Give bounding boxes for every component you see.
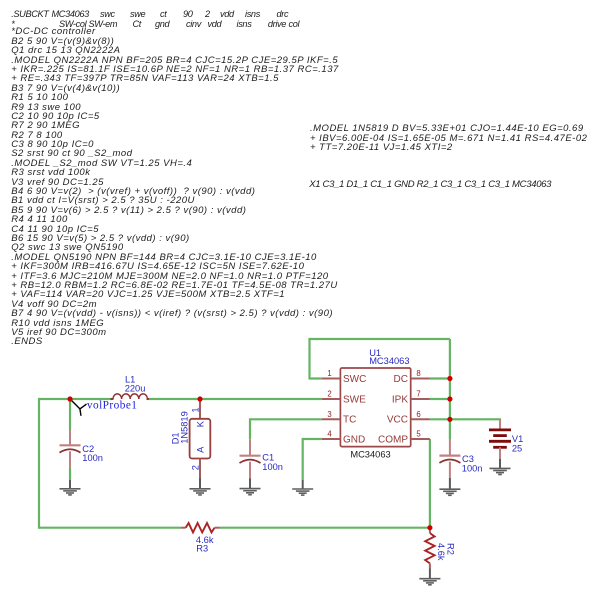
U1 pin number 2 (327, 390, 331, 399)
ground (D1) (190, 478, 211, 495)
label MC34063 (black) (350, 450, 390, 460)
wire: main horizontal node swc-left (39, 398, 112, 400)
U1 pin number 5 (416, 430, 421, 439)
netlist header line 2 tokens (11, 19, 14, 29)
ground (C1) (240, 478, 261, 494)
svg-text:7: 7 (416, 390, 420, 399)
wire: IPK pin7 to node (430, 398, 450, 400)
junction node DC pin8 (447, 376, 452, 381)
label 1N5819 (179, 411, 189, 444)
wire: bottom left to R3 (39, 527, 181, 529)
wire: C2 bottom to ground (69, 468, 71, 480)
U1 pin number 7 (416, 390, 420, 399)
U1 pin label COMP (378, 434, 408, 445)
U1 pin label SWE (343, 394, 366, 405)
U1 pin number 4 (327, 430, 332, 439)
battery V1 (489, 419, 511, 459)
label R2 (445, 543, 455, 555)
label 25 (512, 443, 522, 453)
svg-text:4.6k: 4.6k (436, 543, 446, 561)
svg-text:4: 4 (327, 430, 332, 439)
junction node swc/L1/C2/probe (67, 396, 72, 401)
svg-text:25: 25 (512, 443, 522, 453)
wire: GND pin4 to ground (303, 439, 322, 480)
svg-text:SWC: SWC (343, 374, 366, 385)
wire: R3 to COMP node (220, 527, 431, 529)
wire: TC pin3 to C1 (250, 419, 322, 440)
svg-text:SWE: SWE (343, 394, 366, 405)
U1 pin label VCC (387, 415, 408, 426)
U1 pin number 8 (416, 369, 420, 378)
netlist header line 1 tokens (11, 9, 48, 19)
svg-text:1: 1 (327, 369, 331, 378)
svg-text:K: K (195, 420, 205, 427)
IC U1 MC34063 (322, 368, 430, 447)
label D1 (171, 432, 181, 444)
svg-text:1: 1 (191, 407, 201, 412)
label 100n (C1) (262, 462, 283, 472)
D1 pin 1 label (191, 407, 201, 412)
netlist main block (11, 27, 339, 346)
junction node VCC pin6 (447, 417, 452, 422)
label 4.6k (R2) (436, 543, 446, 561)
svg-text:1N5819: 1N5819 (179, 411, 189, 444)
label C1 (262, 453, 274, 463)
ground (C2) (60, 480, 81, 495)
U1 pin number 3 (327, 410, 331, 419)
D1 anode A label (195, 446, 205, 453)
label 220u (125, 384, 146, 394)
svg-text:TC: TC (343, 415, 356, 426)
resistor R2 (425, 528, 434, 569)
svg-text:100n: 100n (82, 453, 103, 463)
svg-text:volProbe1: volProbe1 (87, 400, 137, 412)
label V1 (512, 434, 523, 444)
probe volProbe1 (70, 399, 86, 416)
svg-text:MC34063: MC34063 (369, 356, 409, 366)
wire: DC pin8 to node (430, 377, 450, 379)
ground (V1) (490, 459, 511, 475)
inductor L1 (111, 394, 150, 399)
U1 pin number 6 (416, 410, 420, 419)
junction node IPK pin7 (447, 396, 452, 401)
svg-text:IPK: IPK (392, 394, 408, 405)
label 100n (C3) (462, 463, 483, 473)
D1 cathode K label (195, 420, 205, 427)
svg-text:8: 8 (416, 369, 420, 378)
wire: VCC to V1 (450, 419, 500, 420)
U1 pin label SWC (343, 374, 366, 385)
svg-text:220u: 220u (125, 384, 146, 394)
svg-text:2: 2 (191, 465, 201, 470)
junction node COMP/R2/R3 (427, 525, 432, 530)
svg-text:2: 2 (327, 390, 331, 399)
svg-text:GND: GND (343, 434, 365, 445)
ground (R2) (419, 569, 440, 585)
wire: left vertical (38, 398, 40, 529)
capacitor C2 (60, 430, 81, 468)
label C2 (82, 444, 94, 454)
wire: COMP pin5 vertical (429, 439, 431, 529)
svg-text:5: 5 (416, 430, 421, 439)
U1 pin label DC (394, 374, 408, 385)
U1 pin number 1 (327, 369, 331, 378)
svg-text:100n: 100n (462, 463, 483, 473)
label U1 (369, 348, 381, 358)
label C3 (462, 454, 474, 464)
netlist X1 subcircuit call (309, 180, 551, 189)
wire: C2 top (69, 399, 71, 430)
label MC34063 (blue) (369, 356, 409, 366)
label volProbe1 (87, 400, 137, 412)
capacitor C1 (240, 440, 261, 479)
wire: right vertical DC/IPK/VCC to C3 (449, 339, 451, 440)
svg-text:DC: DC (394, 374, 408, 385)
ground (C3) (439, 478, 460, 496)
svg-text:MC34063: MC34063 (350, 450, 390, 460)
netlist diode model block (310, 124, 587, 152)
diode D1 (190, 399, 211, 478)
svg-text:R3: R3 (196, 544, 208, 554)
svg-text:VCC: VCC (387, 415, 408, 426)
label L1 (125, 374, 135, 384)
svg-text:3: 3 (327, 410, 331, 419)
resistor R3 (181, 523, 220, 532)
capacitor C3 (439, 440, 460, 478)
U1 pin label GND (343, 434, 365, 445)
label R3 (196, 544, 208, 554)
wire: VCC pin6 to node (430, 418, 450, 420)
junction node L1/D1 (197, 396, 202, 401)
U1 pin label TC (343, 415, 356, 426)
label 4.6k (R3) (196, 535, 214, 545)
wire: SWC pin1 to DC column top loop (310, 339, 450, 379)
svg-text:100n: 100n (262, 462, 283, 472)
U1 pin label IPK (392, 394, 408, 405)
svg-text:COMP: COMP (378, 434, 408, 445)
D1 pin 2 label (191, 465, 201, 470)
svg-text:A: A (195, 446, 205, 453)
wire: L1 right to SWE pin2 (148, 398, 322, 400)
svg-text:6: 6 (416, 410, 420, 419)
ground (GND pin4) (292, 480, 313, 495)
label 100n (C2) (82, 453, 103, 463)
